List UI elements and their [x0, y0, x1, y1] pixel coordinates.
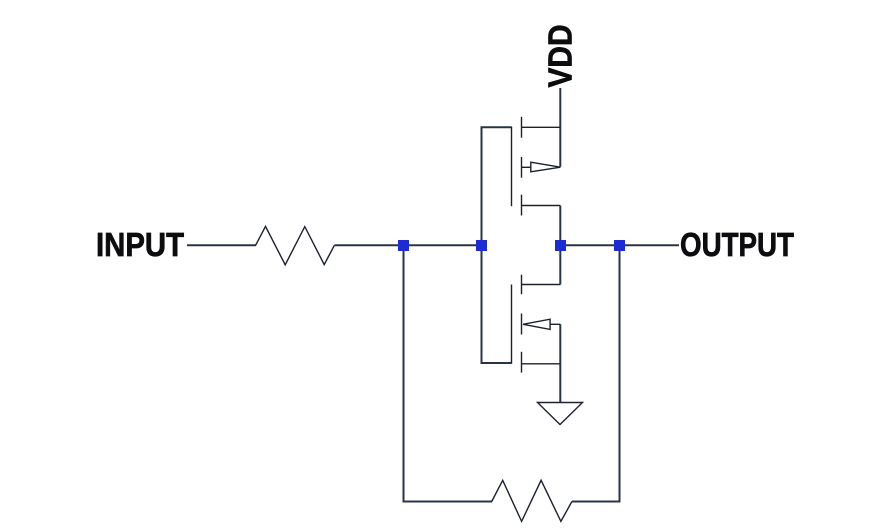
svg-text:VDD: VDD: [542, 25, 579, 88]
transistor Q1 PMOS channel dash (drain side): [521, 195, 523, 216]
transistor Q1 PMOS channel dash (bulk): [521, 157, 523, 178]
node C junction square (drain/output node): [555, 240, 566, 251]
wire: feedback node to OUTPUT lead: [624, 244, 679, 246]
wire: feedback left vertical: [403, 250, 405, 502]
wire: feedback right vertical: [619, 250, 621, 503]
transistor Q1 PMOS bulk arrow (points right): [531, 162, 561, 172]
transistor Q2 NMOS channel dash (drain side): [521, 275, 523, 295]
node A junction square (input node): [398, 240, 409, 251]
wire: INPUT lead to R1: [187, 244, 256, 246]
transistor Q1 PMOS bulk stub: [522, 166, 531, 168]
wire: VDD drop to PMOS source: [559, 88, 561, 167]
svg-text:INPUT: INPUT: [96, 226, 184, 263]
wire: input node to gate node: [408, 244, 483, 246]
transistor Q2 NMOS drain lead: [522, 284, 561, 286]
wire: NMOS bulk and source down to ground: [559, 324, 561, 402]
svg-text:OUTPUT: OUTPUT: [680, 226, 794, 263]
resistor R1 (input series resistor): [256, 226, 335, 264]
resistor R2 (feedback resistor): [492, 480, 572, 521]
transistor Q1 PMOS channel dash (source side): [521, 117, 523, 138]
transistor Q2 NMOS source lead: [522, 363, 561, 365]
wire: gate bus to PMOS gate bar: [481, 126, 512, 128]
transistor Q2 NMOS channel dash (bulk): [521, 314, 523, 335]
ground symbol: [538, 403, 583, 425]
transistor Q2 NMOS gate bar: [511, 285, 513, 364]
node B junction square (gate node): [476, 240, 487, 251]
transistor Q1 PMOS source lead: [522, 126, 561, 128]
transistor Q2 NMOS bulk tail: [550, 323, 560, 325]
wire: R1 to input node: [334, 244, 399, 246]
transistor Q1 PMOS gate bar: [511, 127, 513, 207]
wire: feedback bottom left to R2: [403, 501, 493, 503]
node D junction square (feedback node): [614, 240, 625, 251]
wire: gate vertical bus: [481, 127, 483, 363]
transistor Q2 NMOS channel dash (source side): [521, 352, 523, 373]
transistor Q1 PMOS drain lead: [522, 205, 561, 207]
wire: drain node to feedback node: [565, 244, 620, 246]
wire: PMOS drain to NMOS drain through output node: [559, 206, 561, 285]
wire: gate bus to NMOS gate bar: [481, 362, 512, 364]
transistor Q2 NMOS bulk arrow (points left): [523, 319, 550, 329]
wire: R2 to feedback right vertical: [572, 501, 621, 503]
